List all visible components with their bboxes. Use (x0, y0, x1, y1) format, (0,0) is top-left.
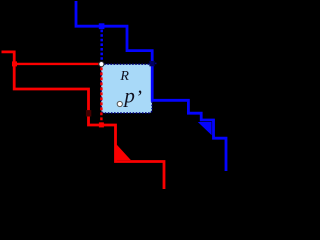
blue filled corner triangle on blue staircase step (198, 122, 212, 135)
blue square marker on blue staircase (99, 23, 105, 29)
svg-text:R: R (119, 69, 129, 84)
navy dash of R top border right of navy square (155, 63, 157, 65)
red dashed vertical wire from p down left edge of R to red staircase line (100, 67, 102, 122)
point p (white dot at top-left corner of R) (99, 62, 104, 67)
red square marker on red staircase vertical (12, 61, 17, 66)
blue staircase (upper/right boundary) (76, 1, 226, 171)
navy square marker at top-right corner of R (149, 61, 154, 66)
svg-text:’: ’ (135, 87, 142, 109)
red query horizontal wire from red marker to point p (15, 63, 101, 65)
point p' (white dot inside R) (117, 101, 122, 106)
rectangle R (query square, light blue fill, dotted navy border) (101, 64, 152, 113)
red staircase (lower/left boundary) (2, 52, 165, 189)
red square marker where dashed line meets red horizontal (99, 122, 104, 127)
blue dotted vertical wire from blue marker down to point p (100, 30, 103, 61)
svg-text:p: p (122, 84, 134, 108)
red filled corner triangle on red staircase step (117, 144, 131, 160)
dark red (maroon) square marker on red staircase at R's bottom level (86, 110, 91, 116)
